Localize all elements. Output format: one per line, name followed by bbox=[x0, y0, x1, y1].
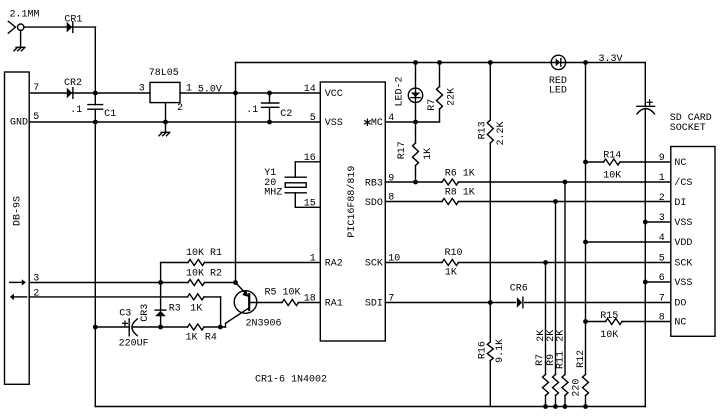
svg-text:R10: R10 bbox=[445, 248, 463, 259]
svg-text:2.2K: 2.2K bbox=[496, 121, 507, 145]
svg-text:/CS: /CS bbox=[674, 177, 692, 189]
svg-text:R3: R3 bbox=[169, 303, 181, 314]
svg-text:R6 1K: R6 1K bbox=[445, 168, 475, 179]
svg-text:7: 7 bbox=[659, 294, 665, 305]
svg-text:NC: NC bbox=[674, 158, 686, 169]
svg-text:MC: MC bbox=[371, 118, 383, 129]
svg-text:9: 9 bbox=[388, 173, 394, 184]
svg-text:VSS: VSS bbox=[674, 278, 692, 289]
svg-text:78L05: 78L05 bbox=[149, 68, 179, 79]
svg-text:10: 10 bbox=[388, 254, 400, 265]
svg-text:7: 7 bbox=[388, 294, 394, 305]
svg-text:CR6: CR6 bbox=[510, 283, 528, 294]
svg-text:RA1: RA1 bbox=[325, 299, 343, 310]
svg-text:3: 3 bbox=[33, 273, 39, 284]
svg-text:3.3V: 3.3V bbox=[599, 54, 623, 65]
svg-text:14: 14 bbox=[304, 84, 316, 95]
svg-text:R14: R14 bbox=[603, 150, 621, 161]
svg-text:1K: 1K bbox=[186, 333, 198, 344]
svg-text:DI: DI bbox=[674, 198, 686, 209]
svg-text:C3: C3 bbox=[119, 309, 131, 320]
svg-text:7: 7 bbox=[33, 83, 39, 94]
svg-text:1K: 1K bbox=[423, 148, 434, 160]
svg-text:R17: R17 bbox=[397, 141, 408, 159]
svg-text:4: 4 bbox=[388, 113, 394, 124]
svg-text:10K: 10K bbox=[603, 171, 621, 182]
svg-text:10K R1: 10K R1 bbox=[186, 248, 222, 259]
svg-text:220: 220 bbox=[572, 379, 583, 397]
svg-text:C2: C2 bbox=[280, 109, 292, 120]
svg-text:1: 1 bbox=[186, 84, 192, 95]
svg-text:R7: R7 bbox=[427, 99, 438, 111]
svg-text:5: 5 bbox=[310, 113, 316, 124]
svg-text:R11: R11 bbox=[555, 351, 566, 369]
svg-text:16: 16 bbox=[304, 153, 316, 164]
svg-text:VCC: VCC bbox=[325, 89, 343, 100]
svg-text:.1: .1 bbox=[70, 105, 82, 116]
svg-text:3: 3 bbox=[139, 84, 145, 95]
svg-text:R5 10K: R5 10K bbox=[265, 288, 301, 299]
svg-text:C1: C1 bbox=[104, 109, 116, 120]
svg-text:9: 9 bbox=[659, 153, 665, 164]
svg-text:SDI: SDI bbox=[365, 299, 383, 310]
svg-text:5.0V: 5.0V bbox=[198, 85, 222, 96]
svg-text:2.1MM: 2.1MM bbox=[10, 9, 40, 20]
svg-text:R16: R16 bbox=[477, 341, 488, 359]
svg-text:DB-9S: DB-9S bbox=[13, 196, 24, 226]
svg-text:R15: R15 bbox=[600, 311, 618, 322]
svg-text:18: 18 bbox=[304, 293, 316, 304]
svg-text:1: 1 bbox=[659, 173, 665, 184]
svg-text:6: 6 bbox=[659, 273, 665, 284]
svg-text:PIC16F88/819: PIC16F88/819 bbox=[346, 166, 358, 238]
svg-text:2: 2 bbox=[177, 103, 183, 114]
svg-text:RA2: RA2 bbox=[325, 259, 343, 270]
svg-text:RB3: RB3 bbox=[365, 178, 383, 189]
svg-text:LED-2: LED-2 bbox=[394, 76, 405, 106]
svg-text:1: 1 bbox=[310, 254, 316, 265]
svg-text:CR1: CR1 bbox=[64, 15, 82, 26]
svg-text:220UF: 220UF bbox=[119, 339, 149, 350]
svg-text:9.1K: 9.1K bbox=[495, 339, 506, 363]
svg-text:SCK: SCK bbox=[365, 259, 383, 270]
svg-text:LED: LED bbox=[549, 86, 567, 97]
svg-text:SCK: SCK bbox=[674, 259, 692, 270]
svg-text:5: 5 bbox=[659, 254, 665, 265]
svg-text:SOCKET: SOCKET bbox=[670, 123, 706, 134]
svg-text:10K R2: 10K R2 bbox=[186, 269, 222, 280]
svg-text:DO: DO bbox=[674, 299, 686, 310]
svg-text:CR2: CR2 bbox=[64, 78, 82, 89]
svg-text:MHZ: MHZ bbox=[264, 188, 282, 199]
svg-text:10K: 10K bbox=[600, 330, 618, 341]
svg-text:1K: 1K bbox=[445, 268, 457, 279]
svg-text:CR3: CR3 bbox=[140, 304, 151, 322]
svg-text:1K: 1K bbox=[190, 303, 202, 314]
svg-text:2K: 2K bbox=[556, 330, 567, 342]
svg-text:.1: .1 bbox=[246, 105, 258, 116]
svg-text:8: 8 bbox=[388, 193, 394, 204]
svg-text:8: 8 bbox=[659, 313, 665, 324]
svg-text:R8 1K: R8 1K bbox=[445, 188, 475, 199]
svg-text:2N3906: 2N3906 bbox=[246, 319, 282, 330]
svg-text:VSS: VSS bbox=[674, 218, 692, 229]
svg-text:2: 2 bbox=[33, 288, 39, 299]
svg-text:NC: NC bbox=[674, 318, 686, 329]
svg-text:VDD: VDD bbox=[674, 238, 692, 249]
svg-text:4: 4 bbox=[659, 233, 665, 244]
svg-text:2: 2 bbox=[659, 193, 665, 204]
svg-text:R7: R7 bbox=[535, 354, 546, 366]
svg-text:R12: R12 bbox=[576, 350, 587, 368]
svg-text:SDO: SDO bbox=[365, 198, 383, 209]
svg-text:VSS: VSS bbox=[325, 118, 343, 129]
svg-text:R13: R13 bbox=[478, 121, 489, 139]
svg-text:15: 15 bbox=[304, 198, 316, 209]
svg-text:R4: R4 bbox=[205, 333, 217, 344]
svg-text:GND: GND bbox=[10, 118, 28, 129]
svg-text:5: 5 bbox=[33, 112, 39, 123]
svg-text:22K: 22K bbox=[447, 88, 458, 106]
svg-text:3: 3 bbox=[659, 213, 665, 224]
svg-text:CR1-6 1N4002: CR1-6 1N4002 bbox=[255, 374, 327, 385]
